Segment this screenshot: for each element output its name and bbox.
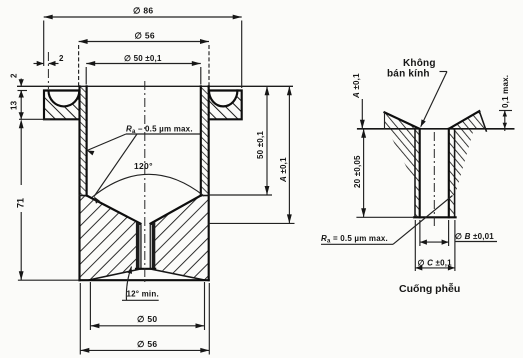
dimension 2 flange lip (34, 52, 65, 89)
outlet flare right (12deg) (151, 269, 204, 280)
centerline (detail) (433, 132, 435, 227)
svg-text:0,1 max.: 0,1 max. (501, 75, 510, 108)
cone surface right (151, 196, 201, 224)
dimension dia50 bottom (90, 282, 204, 330)
dimension dia C +-0.1 (415, 220, 455, 271)
cone surface left (87, 196, 141, 224)
stem outer wall left (detail) (414, 129, 416, 218)
vertical centerline (144, 81, 146, 285)
dimension dia B +-0.01 (420, 220, 497, 246)
cup left outer wall (78, 86, 80, 280)
dimension A +-0.1 depth (209, 86, 295, 223)
svg-text:∅ 56: ∅ 56 (137, 339, 157, 349)
bottom block right hatched section (151, 196, 209, 281)
svg-text:∅ 50: ∅ 50 (137, 314, 157, 324)
stem tube wall right (solid dark band) (150, 222, 156, 269)
svg-text:A ±0,1: A ±0,1 (352, 73, 361, 99)
flange groove arc left (49, 91, 80, 107)
flange outline right (209, 91, 242, 120)
label Ra 0.5 um max with leaders (87, 125, 200, 204)
dimension 50 +-0.1 depth (209, 86, 272, 195)
dimension 2 rim height (10, 73, 28, 98)
svg-text:Cuống phễu: Cuống phễu (399, 282, 460, 295)
stem bottom edge (136, 268, 155, 270)
flange outline left (44, 91, 80, 120)
svg-text:Ra = 0.5 µm max.: Ra = 0.5 µm max. (321, 234, 388, 245)
svg-text:∅ B ±0,01: ∅ B ±0,01 (455, 232, 494, 241)
stem bore left (detail) (419, 129, 421, 218)
left wall hatched section (80, 86, 87, 195)
left wing hatched section (385, 113, 420, 129)
dimension 0.1 max (detail) (499, 75, 512, 131)
label 12 degree min with leader (122, 267, 159, 301)
label Khong ban kinh with leader (387, 58, 447, 127)
svg-text:∅ 86: ∅ 86 (133, 6, 153, 16)
dimension dia56 bottom (80, 283, 209, 355)
svg-text:2: 2 (10, 73, 19, 78)
label Ra 0.5 um max (detail) with leader (321, 196, 453, 245)
stem right wall hatched (449, 129, 455, 218)
right wing hatched section (449, 111, 486, 129)
svg-text:bán kính: bán kính (387, 69, 430, 80)
bottom block left hatched section (80, 196, 141, 281)
flange left hatched section (44, 91, 80, 120)
bottom face edge (80, 279, 209, 281)
cup right inner wall (200, 86, 202, 195)
body left hatched section below plane (387, 129, 415, 184)
block top joint left (80, 195, 87, 197)
dimension dia50 +-0.1 (86, 54, 201, 85)
svg-text:∅ C ±0,1: ∅ C ±0,1 (418, 259, 453, 268)
cup right outer wall (208, 86, 210, 280)
flange right hatched section (209, 91, 242, 120)
label 120 degree cone angle with arc (92, 161, 204, 197)
svg-text:120°: 120° (134, 161, 153, 171)
right wing break edge (479, 111, 486, 131)
cup left inner wall (86, 86, 88, 195)
rim top edge line (17, 85, 293, 87)
dimension 13 flange thickness (10, 91, 51, 120)
svg-text:71: 71 (16, 198, 26, 208)
stem bottom edge (detail) (414, 216, 456, 218)
orifice plane line (358, 128, 514, 130)
flange groove arc right (209, 91, 237, 107)
right wall hatched section (201, 86, 209, 195)
dimension 20 +-0.05 (detail) (353, 129, 414, 218)
dimension dia56 top (79, 31, 209, 86)
svg-text:∅ 50 ±0,1: ∅ 50 ±0,1 (124, 54, 162, 63)
svg-text:2: 2 (59, 54, 64, 63)
cone surface right (detail) (449, 111, 480, 129)
stem bore right (detail) (448, 129, 450, 218)
svg-text:∅ 56: ∅ 56 (135, 31, 155, 41)
svg-text:50 ±0,1: 50 ±0,1 (256, 131, 265, 159)
outlet flare left (12deg) (90, 269, 141, 280)
stem left wall hatched (415, 129, 420, 218)
svg-text:Không: Không (403, 58, 436, 69)
body right hatched section below plane (455, 129, 474, 197)
cone surface left (detail) (385, 112, 420, 129)
svg-text:A ±0,1: A ±0,1 (279, 157, 288, 183)
svg-text:12° min.: 12° min. (127, 290, 159, 299)
stem tube wall left (solid dark band) (136, 222, 142, 269)
dimension 71 body height (16, 119, 80, 280)
block top joint right (201, 195, 209, 197)
svg-text:20 ±0,05: 20 ±0,05 (353, 155, 362, 188)
dimension A +-0.1 (detail) (352, 73, 365, 129)
dimension dia86 (44, 6, 242, 89)
left wing break edge (384, 112, 386, 129)
stem outer wall right (detail) (454, 129, 456, 218)
svg-text:13: 13 (10, 100, 19, 110)
